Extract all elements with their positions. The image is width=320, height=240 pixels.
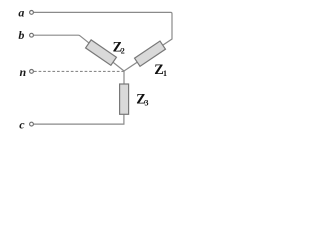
terminal c circle xyxy=(30,122,34,126)
wire phase b: from terminal b right, diagonal to node xyxy=(34,35,124,71)
terminal a circle xyxy=(30,11,34,15)
terminal b circle xyxy=(30,33,34,37)
impedance Z3 box (vertical) xyxy=(120,84,129,114)
terminal n circle xyxy=(30,70,34,74)
svg-text:c: c xyxy=(19,118,25,132)
wire node to Z3 top xyxy=(123,71,125,85)
impedance Z1 box (angled) xyxy=(135,41,166,66)
svg-text:n: n xyxy=(20,65,27,79)
wire neutral n: dashed from terminal n to node xyxy=(34,70,124,72)
wire Z3 bottom down and phase c horizontal xyxy=(34,114,124,124)
svg-text:a: a xyxy=(18,5,24,19)
wire phase a: from terminal a right, down right side, diagonal to node xyxy=(34,12,172,71)
svg-text:b: b xyxy=(18,28,24,42)
impedance Z2 box (angled) xyxy=(86,40,117,65)
